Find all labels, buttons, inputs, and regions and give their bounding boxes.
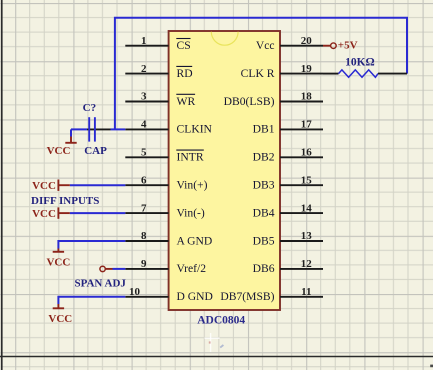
- IC U? ADC0804 body: [169, 31, 280, 310]
- svg-text:11: 11: [301, 286, 311, 298]
- stray cursor mark: [205, 333, 224, 352]
- svg-text:DB3: DB3: [253, 179, 275, 192]
- wire: VCC to Vin pin 6: [70, 184, 126, 186]
- svg-text:7: 7: [141, 202, 147, 214]
- power port VCC (pin 6): [32, 180, 70, 193]
- svg-text:19: 19: [301, 63, 313, 75]
- power port VCC (pin 10): [48, 304, 72, 325]
- stray mark bottom right corner: [430, 365, 433, 368]
- svg-text:ADC0804: ADC0804: [197, 315, 245, 327]
- power port VCC (pin 7): [32, 207, 70, 220]
- svg-text:VCC: VCC: [46, 257, 70, 269]
- wire: top net from CLKIN/cap up over to resistor right end: [115, 18, 407, 130]
- pin 4 (CLKIN) stub, number and name: [125, 119, 212, 136]
- svg-text:DB1: DB1: [253, 123, 275, 136]
- svg-text:Vin(-): Vin(-): [177, 206, 205, 219]
- svg-text:Vcc: Vcc: [256, 39, 275, 52]
- pin 19 (CLK R) stub, number and name: [241, 63, 323, 80]
- wire: cap right pin to CLKIN (pin 4): [111, 128, 126, 130]
- svg-text:VCC: VCC: [32, 180, 56, 192]
- capacitor C?: [87, 117, 111, 141]
- power port VCC (pin 8): [46, 249, 70, 269]
- svg-text:VCC: VCC: [47, 145, 71, 157]
- pin 7 (Vin(-)) stub, number and name: [125, 202, 205, 219]
- svg-text:16: 16: [301, 147, 313, 159]
- wire: VCC to Vin pin 7: [70, 212, 126, 214]
- svg-text:RD: RD: [177, 67, 193, 80]
- svg-text:DB6: DB6: [253, 262, 275, 275]
- pin 9 (Vref/2) stub, number and name: [125, 258, 206, 275]
- pin 13 (DB5) stub, number and name: [253, 230, 323, 247]
- svg-text:VCC: VCC: [32, 208, 56, 220]
- svg-text:CLKIN: CLKIN: [177, 123, 213, 136]
- svg-text:10: 10: [129, 286, 141, 298]
- svg-text:+5V: +5V: [338, 40, 358, 52]
- svg-text:12: 12: [301, 258, 313, 270]
- pin 16 (DB2) stub, number and name: [253, 147, 323, 164]
- svg-text:DIFF INPUTS: DIFF INPUTS: [31, 195, 99, 207]
- svg-text:Vin(+): Vin(+): [177, 179, 208, 192]
- svg-text:2: 2: [141, 63, 147, 75]
- pin 5 (INTR) stub, number and name: [125, 147, 204, 164]
- svg-text:DB5: DB5: [253, 234, 275, 247]
- svg-text:DB0(LSB): DB0(LSB): [224, 95, 275, 108]
- svg-text:WR: WR: [177, 95, 196, 108]
- svg-text:10KΩ: 10KΩ: [345, 57, 375, 69]
- svg-text:C?: C?: [83, 102, 96, 114]
- svg-text:3: 3: [141, 91, 147, 103]
- wire: D GND (pin 10) to VCC port: [58, 297, 125, 304]
- wire: pin 19 to resistor left end: [323, 73, 339, 75]
- resistor 10K: [339, 70, 379, 77]
- pin 6 (Vin(+)) stub, number and name: [125, 174, 207, 191]
- pin 1 (CS) stub, number and name: [125, 35, 190, 52]
- svg-text:17: 17: [301, 119, 313, 131]
- wire: resistor right end to top net: [378, 73, 407, 75]
- svg-text:Vref/2: Vref/2: [177, 262, 207, 275]
- svg-text:6: 6: [141, 174, 147, 186]
- pin 15 (DB3) stub, number and name: [253, 174, 323, 191]
- pin 8 (A GND) stub, number and name: [125, 230, 212, 247]
- pin 17 (DB1) stub, number and name: [253, 119, 323, 136]
- svg-text:VCC: VCC: [48, 313, 72, 325]
- svg-text:DB2: DB2: [253, 151, 275, 164]
- svg-text:D GND: D GND: [177, 290, 213, 303]
- svg-text:1: 1: [141, 35, 147, 47]
- svg-text:13: 13: [301, 230, 313, 242]
- svg-text:INTR: INTR: [177, 151, 204, 164]
- pin 12 (DB6) stub, number and name: [253, 258, 323, 275]
- svg-text:DB7(MSB): DB7(MSB): [220, 290, 274, 303]
- pin 10 (D GND) stub, number and name: [125, 286, 213, 303]
- pin 14 (DB4) stub, number and name: [253, 202, 323, 219]
- svg-text:5: 5: [141, 147, 147, 159]
- svg-text:14: 14: [301, 202, 313, 214]
- svg-text:9: 9: [141, 258, 147, 270]
- svg-text:20: 20: [301, 35, 313, 47]
- svg-text:SPAN ADJ: SPAN ADJ: [74, 277, 126, 289]
- pin 20 (Vcc) stub, number and name: [256, 35, 323, 52]
- power port VCC (at capacitor / pin 4 net): [47, 129, 77, 157]
- svg-text:15: 15: [301, 174, 313, 186]
- svg-text:CS: CS: [177, 39, 191, 52]
- svg-text:8: 8: [141, 230, 147, 242]
- pin 11 (DB7(MSB)) stub, number and name: [220, 286, 323, 303]
- pin 2 (RD) stub, number and name: [125, 63, 192, 80]
- svg-text:A GND: A GND: [177, 234, 213, 247]
- power port +5V (pin 20): [323, 40, 358, 52]
- pin 18 (DB0(LSB)) stub, number and name: [224, 91, 323, 108]
- power port SPAN ADJ circle (pin 9): [100, 266, 113, 271]
- wire: A GND (pin 8) to VCC port: [58, 241, 125, 249]
- svg-text:4: 4: [141, 119, 147, 131]
- svg-text:18: 18: [301, 91, 313, 103]
- svg-text:CAP: CAP: [84, 145, 107, 157]
- svg-text:CLK R: CLK R: [241, 67, 275, 80]
- wire: VCC corner to cap left pin: [71, 128, 87, 130]
- svg-text:DB4: DB4: [253, 206, 275, 219]
- wire: SPAN ADJ to Vref/2 (pin 9): [113, 268, 126, 270]
- pin 3 (WR) stub, number and name: [125, 91, 195, 108]
